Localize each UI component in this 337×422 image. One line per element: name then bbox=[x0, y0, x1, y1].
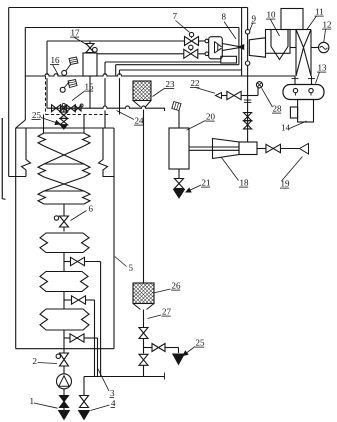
svg-text:23: 23 bbox=[166, 79, 176, 89]
svg-text:25: 25 bbox=[196, 338, 206, 348]
svg-text:13: 13 bbox=[318, 63, 328, 73]
svg-text:15: 15 bbox=[85, 82, 95, 92]
svg-text:7: 7 bbox=[173, 11, 178, 21]
svg-text:8: 8 bbox=[222, 12, 227, 22]
svg-text:6: 6 bbox=[89, 204, 94, 214]
svg-text:4: 4 bbox=[111, 398, 116, 408]
svg-text:16: 16 bbox=[51, 55, 61, 65]
svg-text:25: 25 bbox=[32, 110, 42, 120]
svg-text:12: 12 bbox=[323, 20, 332, 30]
svg-text:28: 28 bbox=[273, 104, 283, 114]
svg-text:11: 11 bbox=[315, 7, 324, 17]
svg-text:21: 21 bbox=[202, 178, 211, 188]
svg-text:27: 27 bbox=[162, 307, 172, 317]
svg-text:1: 1 bbox=[30, 396, 35, 406]
svg-text:17: 17 bbox=[71, 28, 81, 38]
svg-text:14: 14 bbox=[281, 123, 291, 133]
svg-text:5: 5 bbox=[129, 263, 134, 273]
svg-text:2: 2 bbox=[33, 356, 38, 366]
svg-text:18: 18 bbox=[240, 178, 250, 188]
svg-text:20: 20 bbox=[206, 112, 216, 122]
svg-text:3: 3 bbox=[110, 388, 115, 398]
svg-text:10: 10 bbox=[267, 10, 277, 20]
svg-text:24: 24 bbox=[135, 116, 145, 126]
svg-text:26: 26 bbox=[172, 281, 182, 291]
svg-text:9: 9 bbox=[252, 14, 257, 24]
svg-text:22: 22 bbox=[191, 78, 200, 88]
